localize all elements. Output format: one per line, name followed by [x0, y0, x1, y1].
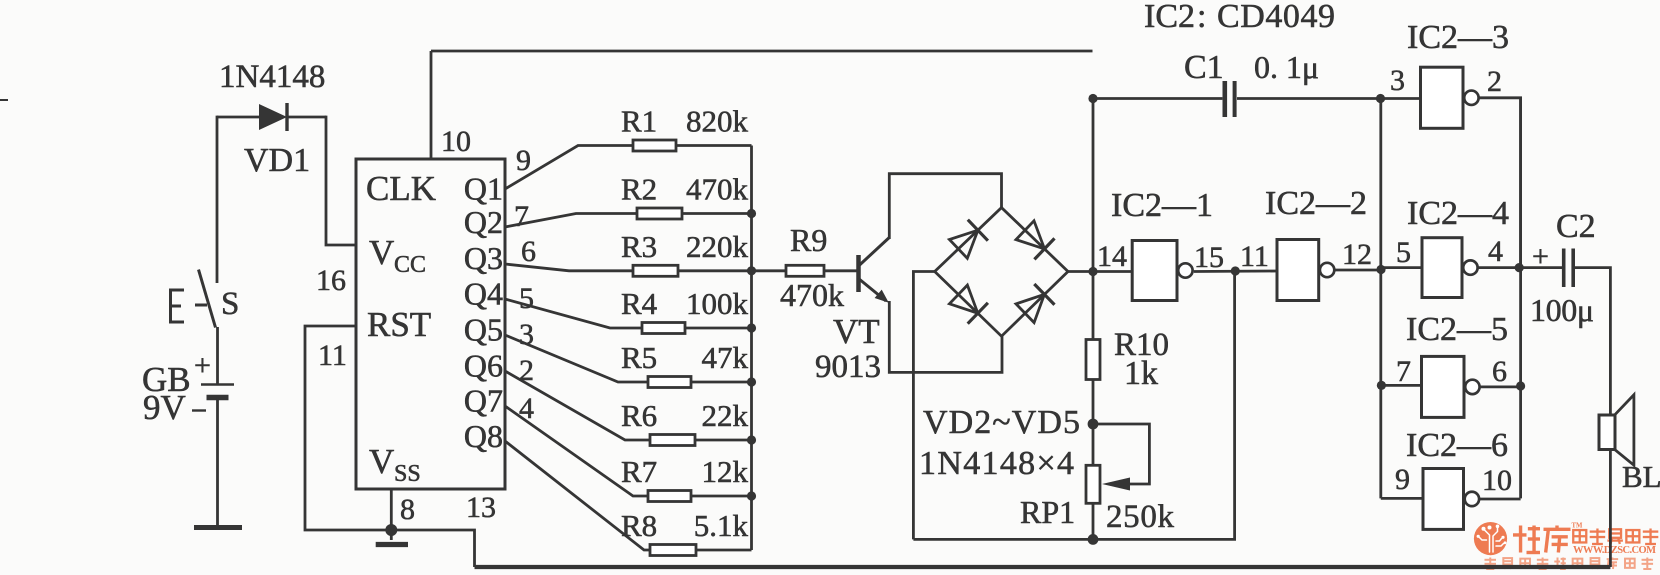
- ground (battery): [194, 525, 242, 530]
- wire R9 to base: [824, 269, 859, 272]
- wire Q2 to R2: [505, 214, 637, 228]
- bridge frame: [935, 208, 1068, 337]
- junction C2 node: [1515, 263, 1524, 272]
- svg-text:WWW.DZSC.COM: WWW.DZSC.COM: [1573, 545, 1656, 556]
- svg-text:5.1k: 5.1k: [694, 508, 749, 543]
- svg-text:Q1: Q1: [464, 171, 503, 207]
- svg-text:R7: R7: [621, 454, 657, 489]
- svg-text:470k: 470k: [780, 277, 844, 313]
- wire bridge left corner down: [913, 272, 934, 540]
- svg-text:R8: R8: [621, 508, 657, 543]
- wire VD1 left vertical down to switch: [216, 116, 219, 283]
- junction bus: [747, 435, 756, 444]
- svg-text:7: 7: [514, 200, 529, 233]
- resistor R6 22k: [650, 435, 695, 446]
- svg-text:100μ: 100μ: [1530, 292, 1594, 328]
- wire Q3 to R3: [505, 264, 633, 271]
- svg-text:SS: SS: [394, 461, 421, 487]
- transistor VT base bar: [856, 255, 861, 292]
- svg-text:R3: R3: [621, 229, 657, 264]
- junction IC2-5 out node: [1516, 381, 1525, 390]
- wire IC2-6 out: [1480, 498, 1521, 501]
- inverter IC2-2: [1277, 240, 1319, 301]
- watermark logo tree: [1480, 528, 1504, 552]
- svg-text:Q4: Q4: [464, 276, 503, 312]
- svg-text:CD4049: CD4049: [1217, 0, 1335, 35]
- resistor R3 220k: [633, 265, 678, 276]
- switch S blade: [199, 270, 216, 328]
- svg-text:R1: R1: [621, 104, 657, 139]
- resistor R7 12k: [648, 491, 691, 502]
- svg-text:VD1: VD1: [244, 142, 310, 179]
- wire bottom rail: [475, 565, 1611, 569]
- wire emitter down: [889, 301, 1002, 372]
- watermark slogan row: [1485, 558, 1497, 570]
- junction feedback: [1231, 266, 1240, 275]
- svg-text:R6: R6: [621, 398, 657, 433]
- svg-text:Q8: Q8: [464, 418, 503, 454]
- wire VD1 cathode to corner: [287, 116, 326, 119]
- svg-text::: :: [1197, 0, 1206, 35]
- svg-text:+: +: [194, 349, 211, 382]
- svg-text:9: 9: [516, 144, 531, 177]
- svg-text:V: V: [369, 442, 394, 481]
- svg-text:5: 5: [1396, 236, 1411, 269]
- ground (VSS pin8): [376, 542, 408, 547]
- junction bus: [747, 491, 756, 500]
- wire RST pin11 path: [305, 326, 475, 567]
- wire node to IC2-1 input: [1093, 270, 1132, 273]
- svg-text:8: 8: [400, 493, 415, 526]
- watermark text dianzishichangwang: [1573, 530, 1586, 542]
- potentiometer RP1 arrow: [1102, 478, 1130, 491]
- wire Q7 to R7: [505, 406, 648, 496]
- svg-text:C2: C2: [1556, 208, 1596, 245]
- wire bridge right corner to node: [1068, 270, 1093, 273]
- svg-text:IC2—1: IC2—1: [1111, 187, 1213, 224]
- svg-text:470k: 470k: [686, 172, 749, 207]
- svg-text:Q7: Q7: [464, 383, 503, 419]
- svg-text:VT: VT: [833, 312, 880, 351]
- svg-text:820k: 820k: [686, 104, 749, 139]
- wire R1 to bus: [676, 144, 752, 147]
- wire to IC2-3 input: [1381, 97, 1421, 100]
- svg-text:Q3: Q3: [464, 240, 503, 276]
- junction bus: [747, 266, 756, 275]
- inverter IC2-6: [1423, 469, 1464, 530]
- wire to IC2-5 input: [1381, 384, 1422, 387]
- svg-text:RP1: RP1: [1020, 494, 1075, 530]
- svg-text:9013: 9013: [815, 349, 881, 385]
- wire battery to ground: [216, 397, 219, 527]
- resistor R8 5.1k: [650, 545, 696, 556]
- capacitor C2 100u: [1562, 249, 1566, 288]
- wire R8 to bus: [696, 549, 752, 552]
- svg-text:12k: 12k: [702, 454, 749, 489]
- inverter IC2-3: [1421, 67, 1464, 128]
- svg-text:+: +: [1532, 240, 1549, 273]
- svg-text:11: 11: [1240, 240, 1269, 273]
- svg-text:2: 2: [1487, 65, 1502, 98]
- speaker BL body: [1599, 415, 1615, 450]
- wire to IC2-4 input: [1381, 266, 1422, 269]
- svg-text:Q2: Q2: [464, 204, 503, 240]
- svg-text:1N4148: 1N4148: [219, 59, 325, 95]
- wire C2 right to speaker: [1575, 268, 1610, 567]
- svg-text:6: 6: [521, 235, 536, 268]
- wire IC2-4 out: [1479, 266, 1520, 269]
- wire R4 to bus: [685, 327, 752, 330]
- svg-text:TM: TM: [1572, 523, 1584, 530]
- wire collector up and to bridge top: [889, 174, 1001, 239]
- svg-text:1k: 1k: [1124, 355, 1158, 392]
- pin 8 stub (VSS): [390, 489, 393, 540]
- diode VD3 (upper-right): [1016, 221, 1045, 249]
- wire IC2-5 out: [1481, 385, 1521, 388]
- svg-text:250k: 250k: [1106, 499, 1175, 535]
- junction bus: [747, 377, 756, 386]
- junction bridge-right: [1088, 267, 1097, 276]
- wire IC2-2 out: [1336, 269, 1382, 272]
- IC U1 CD4060 body: [356, 159, 505, 489]
- svg-text:CLK: CLK: [366, 169, 436, 208]
- diode VD2 (upper-left): [949, 230, 978, 258]
- svg-text:IC2—4: IC2—4: [1407, 195, 1509, 232]
- transistor VT emitter with arrow: [859, 279, 887, 302]
- wire Q6 to R6: [505, 371, 650, 440]
- svg-text:IC2—5: IC2—5: [1406, 311, 1508, 348]
- wire R2 to bus: [682, 212, 752, 215]
- junction top node: [1088, 94, 1097, 103]
- wire Q4 to R4: [505, 299, 642, 328]
- svg-text:220k: 220k: [686, 229, 749, 264]
- wire C2 left: [1519, 266, 1562, 269]
- svg-text:BL: BL: [1622, 459, 1660, 494]
- speaker BL horn: [1615, 395, 1634, 465]
- resistor R5 47k: [648, 377, 691, 388]
- svg-text:16: 16: [316, 264, 346, 297]
- svg-text:13: 13: [466, 491, 496, 524]
- wire Q8 to R8: [505, 441, 650, 550]
- transistor VT collector: [859, 238, 890, 267]
- wire Q1 to R1: [505, 146, 633, 190]
- capacitor C1 0.1u: [1223, 81, 1228, 117]
- svg-text:5: 5: [519, 282, 534, 315]
- wire bus to R9: [752, 269, 787, 272]
- svg-text:IC2—3: IC2—3: [1407, 19, 1509, 56]
- svg-text:12: 12: [1342, 238, 1372, 271]
- inverter IC2-5: [1422, 356, 1465, 417]
- svg-text:R5: R5: [621, 340, 657, 375]
- wire Q5 to R5: [505, 335, 648, 382]
- resistor R1 820k: [633, 140, 676, 151]
- svg-text:10: 10: [1482, 464, 1512, 497]
- svg-text:RST: RST: [367, 305, 431, 344]
- wire right chain vertical: [1519, 98, 1522, 499]
- svg-text:R2: R2: [621, 172, 657, 207]
- svg-text:IC2—6: IC2—6: [1406, 427, 1508, 464]
- junction bus: [747, 323, 756, 332]
- diode VD5 (lower-right): [1016, 294, 1044, 322]
- wire IC2-1 out to IC2-2 in: [1194, 270, 1277, 273]
- wire top rail: [431, 50, 1093, 53]
- junction gate vertical mid: [1376, 265, 1385, 274]
- svg-text:V: V: [369, 233, 394, 272]
- wire C1 left: [1093, 97, 1223, 100]
- svg-text:11: 11: [318, 339, 347, 372]
- resistor R4 100k: [642, 323, 685, 334]
- wire R5 to bus: [691, 381, 752, 384]
- svg-text:C1: C1: [1184, 49, 1224, 86]
- svg-text:9V: 9V: [143, 388, 186, 427]
- switch actuator symbol E: [171, 290, 185, 322]
- svg-text:VD2~VD5: VD2~VD5: [923, 404, 1080, 441]
- wire main node vertical: [1092, 99, 1095, 540]
- svg-text:S: S: [221, 286, 239, 322]
- svg-text:9: 9: [1395, 463, 1410, 496]
- svg-text:0. 1μ: 0. 1μ: [1254, 49, 1319, 85]
- pin 10 wire (CLK top): [430, 51, 433, 159]
- watermark brand text weiku: [1513, 526, 1540, 553]
- battery GB positive plate (long): [201, 383, 234, 386]
- wire to IC2-6 input: [1381, 497, 1423, 500]
- wire IC2-3 out down: [1479, 98, 1520, 268]
- wire R6 to bus: [695, 439, 752, 442]
- inverter IC2-4: [1422, 238, 1462, 298]
- svg-text:4: 4: [1488, 235, 1503, 268]
- diode VD4 (lower-left): [949, 285, 977, 313]
- junction pin8: [385, 524, 397, 536]
- junction bus: [747, 209, 756, 218]
- svg-text:CC: CC: [394, 252, 426, 278]
- wire VD1 right vertical down to VCC pin16: [326, 116, 356, 245]
- potentiometer RP1 wiper path: [1093, 424, 1149, 484]
- svg-text:R9: R9: [790, 222, 827, 258]
- junction node-rail: [1088, 534, 1099, 545]
- svg-text:10: 10: [441, 125, 471, 158]
- svg-text:47k: 47k: [702, 340, 749, 375]
- wire top-left horizontal (VD1 anode wire): [217, 116, 259, 119]
- label minus: [192, 409, 206, 411]
- switch actuator dash: [195, 304, 207, 307]
- wire switch to battery +: [216, 327, 219, 384]
- battery GB negative plate (short thick): [207, 395, 229, 401]
- scan artifact left edge: [0, 99, 8, 101]
- wire resistor bus: [750, 146, 753, 551]
- wire sub rail: [913, 271, 1234, 540]
- svg-text:7: 7: [1396, 355, 1411, 388]
- junction gate vertical low: [1377, 381, 1386, 390]
- svg-text:14: 14: [1097, 240, 1127, 273]
- resistor R9 470k: [786, 265, 824, 276]
- svg-text:IC2—2: IC2—2: [1265, 185, 1367, 222]
- inverter IC2-1: [1132, 241, 1177, 301]
- svg-text:3: 3: [1390, 64, 1405, 97]
- svg-text:6: 6: [1492, 355, 1507, 388]
- resistor R10 1k: [1086, 340, 1100, 380]
- wire R7 to bus: [691, 495, 752, 498]
- wire gate chain vertical: [1379, 99, 1382, 499]
- junction pin3 node: [1376, 94, 1385, 103]
- svg-text:R4: R4: [621, 286, 658, 321]
- resistor R2 470k: [637, 208, 682, 219]
- svg-text:22k: 22k: [702, 398, 749, 433]
- svg-text:Q6: Q6: [464, 348, 503, 384]
- watermark logo circle: [1474, 522, 1507, 555]
- diode VD1 (1N4148): [259, 104, 287, 130]
- wire C1 right: [1237, 97, 1381, 100]
- svg-text:1N4148×4: 1N4148×4: [919, 445, 1074, 482]
- potentiometer RP1 body: [1086, 465, 1100, 503]
- junction RP1 tap: [1088, 419, 1099, 430]
- svg-text:15: 15: [1194, 241, 1224, 274]
- svg-text:100k: 100k: [686, 286, 749, 321]
- svg-text:Q5: Q5: [464, 312, 503, 348]
- wire R3 to bus: [678, 269, 752, 272]
- svg-text:IC2: IC2: [1144, 0, 1195, 35]
